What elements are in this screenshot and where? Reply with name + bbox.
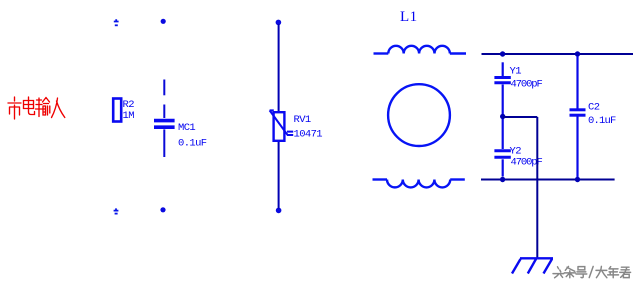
capacitor Y2 bottom lead <box>502 159 504 176</box>
svg-text:4700pF: 4700pF <box>511 79 543 91</box>
wire MC1 branch upper segment <box>163 80 165 96</box>
wire RV1 branch upper <box>278 24 280 112</box>
junction bottom rail / Y2 <box>500 177 505 182</box>
wire bottom rail <box>481 179 615 181</box>
connector pin mark bottom-left (pin 1) <box>114 208 119 213</box>
choke L1 top winding <box>374 46 467 54</box>
junction top rail / Y1 <box>500 51 505 56</box>
wire MC1 branch lower segment <box>163 129 165 157</box>
junction node bottom of RV1 branch <box>276 208 282 214</box>
junction top rail / C2 <box>575 51 580 56</box>
earth ground symbol <box>512 258 553 273</box>
watermark 头条号 / 大年君 <box>553 266 631 277</box>
svg-text:RV1: RV1 <box>294 114 311 126</box>
capacitor C2 top lead <box>576 56 578 109</box>
resistor R2 body <box>113 99 121 122</box>
wire MC1 branch above capacitor <box>163 105 165 119</box>
capacitor Y1 top lead <box>502 62 504 76</box>
varistor RV1 body <box>274 112 285 141</box>
choke L1 bottom winding <box>373 180 465 188</box>
svg-text:0.1uF: 0.1uF <box>178 138 207 150</box>
connector pin mark top-left (pin 2) <box>114 19 119 25</box>
svg-text:1M: 1M <box>123 110 135 122</box>
varistor RV1 terminal dashes <box>287 132 293 135</box>
varistor RV1 diagonal stroke <box>270 110 288 135</box>
wire earth tap horizontal <box>503 116 537 118</box>
junction bottom rail / C2 <box>575 177 580 182</box>
svg-text:10471: 10471 <box>294 129 323 141</box>
capacitor Y2 plates <box>494 151 510 158</box>
capacitor Y1 plates <box>494 78 510 83</box>
wire RV1 branch lower <box>278 141 280 209</box>
svg-text:0.1uF: 0.1uF <box>588 115 616 127</box>
wire earth vertical drop <box>536 117 538 258</box>
svg-text:Y1: Y1 <box>510 66 522 78</box>
junction node top of RV1 branch <box>276 20 282 26</box>
capacitor MC1 plates <box>154 121 175 128</box>
svg-text:L1: L1 <box>400 9 418 25</box>
svg-text:C2: C2 <box>588 102 600 114</box>
junction node top-middle <box>161 19 166 24</box>
junction Y caps midpoint / earth tap <box>500 114 505 119</box>
choke L1 core circle <box>388 84 450 146</box>
svg-text:MC1: MC1 <box>178 122 195 134</box>
red annotation 市电输入 (mains input) <box>8 97 65 119</box>
wire top rail <box>482 53 633 55</box>
capacitor C2 bottom lead <box>576 117 578 178</box>
wire between Y1 and Y2 <box>502 85 504 150</box>
capacitor C2 plates <box>570 110 586 115</box>
junction node bottom-middle <box>160 207 165 212</box>
